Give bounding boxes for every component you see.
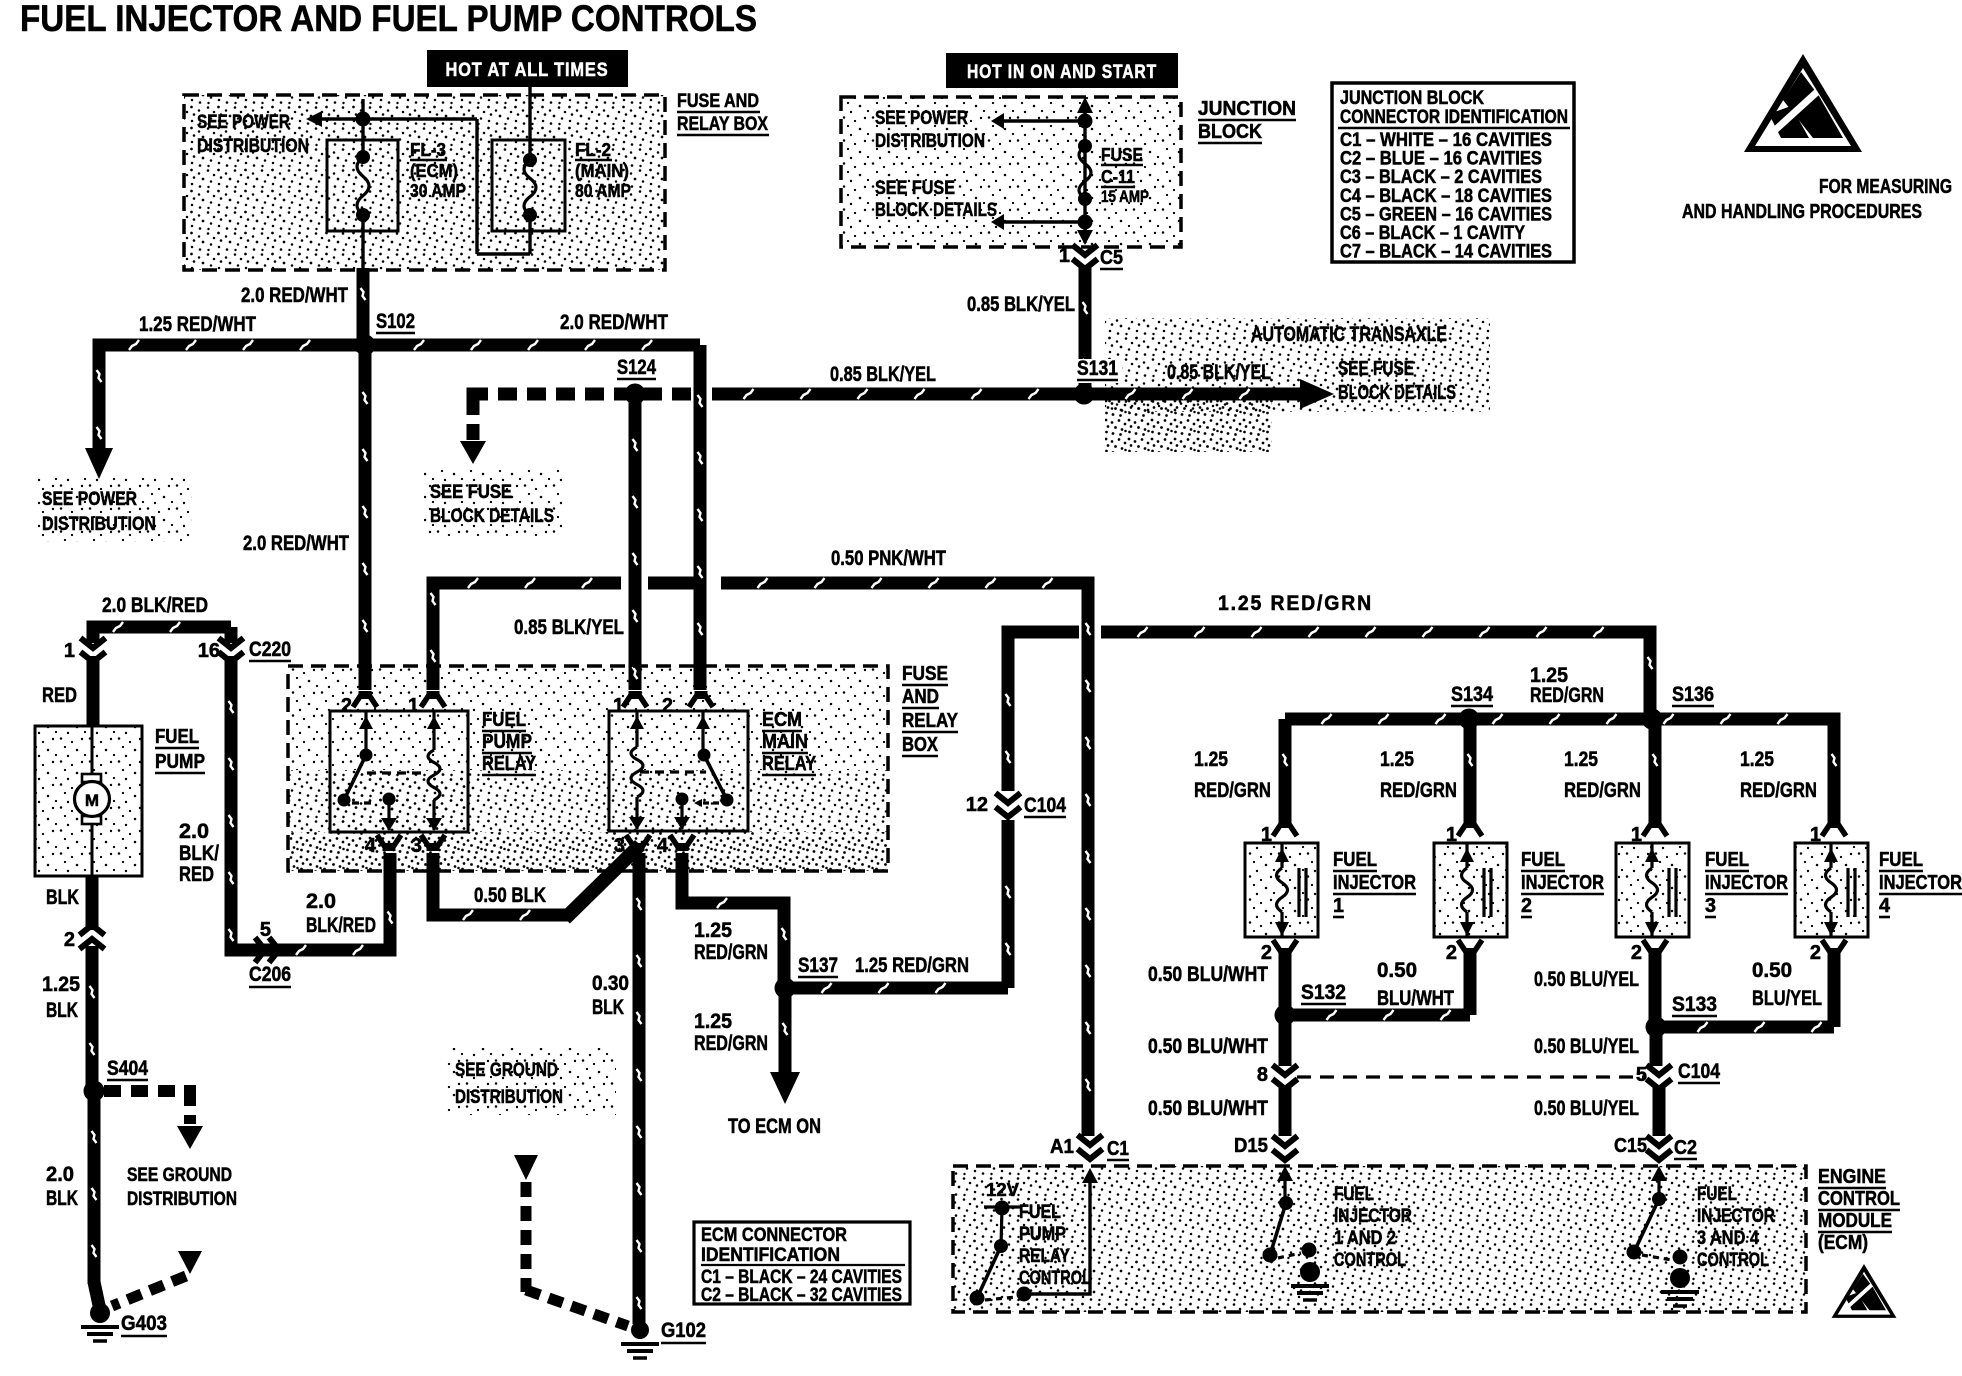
svg-text:PUMP: PUMP — [1019, 1224, 1066, 1245]
svg-text:PUMP: PUMP — [155, 751, 205, 773]
svg-text:RED/GRN: RED/GRN — [1564, 779, 1641, 802]
svg-text:C2 – BLACK – 32 CAVITIES: C2 – BLACK – 32 CAVITIES — [701, 1285, 902, 1306]
svg-text:RED/GRN: RED/GRN — [1530, 684, 1604, 707]
svg-text:MODULE: MODULE — [1818, 1210, 1892, 1232]
svg-text:M: M — [85, 791, 99, 810]
svg-text:2: 2 — [1446, 942, 1457, 964]
svg-text:RELAY: RELAY — [482, 753, 537, 775]
svg-text:HOT IN ON AND START: HOT IN ON AND START — [967, 62, 1157, 83]
svg-text:1.25: 1.25 — [1564, 748, 1598, 771]
svg-text:C-11: C-11 — [1101, 167, 1135, 187]
svg-text:0.85 BLK/YEL: 0.85 BLK/YEL — [514, 616, 624, 639]
svg-text:SEE FUSE: SEE FUSE — [430, 482, 512, 503]
svg-text:BLOCK DETAILS: BLOCK DETAILS — [430, 506, 554, 527]
svg-text:3: 3 — [1705, 895, 1716, 917]
svg-text:RED/GRN: RED/GRN — [1194, 779, 1271, 802]
svg-text:(ECM): (ECM) — [1818, 1232, 1868, 1254]
svg-text:1: 1 — [1631, 824, 1642, 846]
svg-text:FOR MEASURING: FOR MEASURING — [1819, 176, 1952, 198]
svg-text:CONTROL: CONTROL — [1019, 1268, 1091, 1289]
svg-text:C1: C1 — [1107, 1138, 1129, 1160]
svg-text:DISTRIBUTION: DISTRIBUTION — [455, 1087, 563, 1108]
svg-text:AUTOMATIC TRANSAXLE: AUTOMATIC TRANSAXLE — [1251, 323, 1447, 346]
svg-text:1: 1 — [64, 640, 75, 662]
svg-text:0.50: 0.50 — [1752, 959, 1792, 982]
svg-text:2: 2 — [1261, 942, 1272, 964]
svg-text:RED/GRN: RED/GRN — [694, 941, 768, 964]
svg-text:12: 12 — [966, 794, 988, 816]
svg-text:ECM CONNECTOR: ECM CONNECTOR — [701, 1225, 847, 1246]
svg-text:2.0: 2.0 — [46, 1163, 74, 1186]
svg-text:C5: C5 — [1100, 247, 1123, 269]
svg-text:BLK/: BLK/ — [179, 842, 219, 865]
svg-text:SEE POWER: SEE POWER — [875, 108, 968, 129]
svg-text:RELAY: RELAY — [762, 753, 817, 775]
svg-text:2.0 RED/WHT: 2.0 RED/WHT — [560, 311, 668, 334]
svg-text:AND HANDLING PROCEDURES: AND HANDLING PROCEDURES — [1682, 201, 1922, 223]
svg-text:0.50 BLU/YEL: 0.50 BLU/YEL — [1534, 968, 1639, 991]
svg-text:INJECTOR: INJECTOR — [1334, 1206, 1412, 1227]
svg-text:FUEL: FUEL — [1334, 1184, 1374, 1205]
svg-text:FUSE: FUSE — [902, 663, 948, 685]
svg-text:0.50 BLU/WHT: 0.50 BLU/WHT — [1148, 963, 1268, 986]
svg-text:12V: 12V — [986, 1180, 1019, 1200]
svg-text:0.50 BLK: 0.50 BLK — [474, 884, 546, 907]
svg-text:SEE FUSE: SEE FUSE — [1338, 358, 1414, 380]
svg-text:INJECTOR: INJECTOR — [1697, 1206, 1775, 1227]
svg-text:FUEL INJECTOR AND FUEL PUMP CO: FUEL INJECTOR AND FUEL PUMP CONTROLS — [20, 0, 757, 39]
svg-text:C15: C15 — [1614, 1135, 1647, 1157]
svg-text:2: 2 — [1521, 895, 1532, 917]
svg-text:CONTROL: CONTROL — [1697, 1250, 1769, 1271]
svg-text:0.50: 0.50 — [1377, 959, 1417, 982]
svg-text:1 AND 2: 1 AND 2 — [1334, 1228, 1396, 1249]
svg-text:S404: S404 — [107, 1057, 148, 1080]
svg-text:C206: C206 — [249, 963, 291, 986]
svg-text:0.50 BLU/WHT: 0.50 BLU/WHT — [1148, 1035, 1268, 1058]
svg-text:DISTRIBUTION: DISTRIBUTION — [197, 136, 309, 157]
svg-text:(ECM): (ECM) — [410, 161, 458, 181]
svg-text:C220: C220 — [249, 638, 291, 661]
svg-text:D15: D15 — [1234, 1135, 1268, 1157]
svg-text:0.50 BLU/WHT: 0.50 BLU/WHT — [1148, 1097, 1268, 1120]
svg-text:JUNCTION: JUNCTION — [1198, 98, 1296, 120]
svg-text:C104: C104 — [1678, 1060, 1720, 1083]
svg-text:2: 2 — [1810, 942, 1821, 964]
svg-text:2: 2 — [662, 695, 673, 717]
svg-text:FUEL: FUEL — [1333, 849, 1377, 871]
svg-text:2.0 RED/WHT: 2.0 RED/WHT — [243, 532, 349, 555]
svg-text:1.25: 1.25 — [694, 919, 732, 942]
svg-text:0.85 BLK/YEL: 0.85 BLK/YEL — [1167, 361, 1271, 384]
svg-text:C7 – BLACK – 14 CAVITIES: C7 – BLACK – 14 CAVITIES — [1340, 242, 1552, 263]
svg-text:RELAY: RELAY — [1019, 1246, 1070, 1267]
svg-text:2.0 BLK/RED: 2.0 BLK/RED — [102, 594, 208, 617]
svg-text:S137: S137 — [798, 954, 838, 977]
svg-text:SEE GROUND: SEE GROUND — [455, 1060, 558, 1081]
svg-text:2.0: 2.0 — [179, 820, 209, 843]
svg-text:DISTRIBUTION: DISTRIBUTION — [42, 514, 156, 535]
svg-text:BLK: BLK — [46, 999, 78, 1022]
svg-text:4: 4 — [657, 835, 669, 857]
svg-text:2: 2 — [1631, 942, 1642, 964]
svg-text:S132: S132 — [1301, 981, 1346, 1004]
svg-text:FL-2: FL-2 — [575, 140, 611, 160]
svg-text:RELAY: RELAY — [902, 710, 959, 732]
svg-text:FUEL: FUEL — [155, 726, 199, 748]
svg-text:INJECTOR: INJECTOR — [1521, 872, 1604, 894]
svg-text:INJECTOR: INJECTOR — [1879, 872, 1962, 894]
svg-text:FL-3: FL-3 — [410, 140, 446, 160]
svg-text:S131: S131 — [1077, 357, 1118, 380]
svg-text:S133: S133 — [1672, 993, 1717, 1016]
svg-text:RED/GRN: RED/GRN — [1380, 779, 1457, 802]
svg-text:0.50 PNK/WHT: 0.50 PNK/WHT — [831, 547, 946, 570]
svg-text:PUMP: PUMP — [482, 731, 532, 753]
svg-text:RED: RED — [179, 863, 214, 886]
svg-text:RED/GRN: RED/GRN — [694, 1032, 768, 1055]
svg-text:AND: AND — [902, 686, 939, 708]
svg-text:INJECTOR: INJECTOR — [1333, 872, 1416, 894]
svg-text:S124: S124 — [617, 356, 656, 379]
svg-text:FUEL: FUEL — [1019, 1202, 1061, 1223]
svg-text:CONTROL: CONTROL — [1818, 1188, 1900, 1210]
svg-text:DISTRIBUTION: DISTRIBUTION — [875, 131, 985, 152]
svg-text:3: 3 — [614, 835, 625, 857]
svg-text:80 AMP: 80 AMP — [575, 181, 631, 201]
svg-text:BLK: BLK — [592, 996, 624, 1019]
svg-text:1: 1 — [1810, 824, 1821, 846]
svg-text:BLU/YEL: BLU/YEL — [1752, 987, 1822, 1010]
svg-text:TO ECM ON: TO ECM ON — [728, 1115, 821, 1138]
svg-text:1.25 RED/GRN: 1.25 RED/GRN — [855, 954, 969, 977]
svg-text:C2: C2 — [1674, 1137, 1697, 1159]
svg-text:1: 1 — [408, 695, 419, 717]
svg-text:G403: G403 — [121, 1312, 167, 1335]
svg-text:FUEL: FUEL — [1705, 849, 1749, 871]
svg-text:0.85 BLK/YEL: 0.85 BLK/YEL — [830, 363, 936, 386]
svg-text:0.85 BLK/YEL: 0.85 BLK/YEL — [967, 293, 1075, 316]
svg-text:2: 2 — [341, 695, 352, 717]
svg-text:S102: S102 — [376, 310, 415, 333]
svg-text:C104: C104 — [1024, 794, 1066, 817]
svg-text:0.30: 0.30 — [592, 972, 629, 995]
svg-text:BLK/RED: BLK/RED — [306, 914, 376, 937]
svg-text:RED: RED — [42, 684, 77, 707]
svg-text:JUNCTION BLOCK: JUNCTION BLOCK — [1340, 88, 1484, 109]
svg-text:1.25: 1.25 — [694, 1010, 732, 1033]
svg-text:SEE FUSE: SEE FUSE — [875, 178, 955, 199]
svg-text:DISTRIBUTION: DISTRIBUTION — [127, 1189, 237, 1210]
svg-text:1.25: 1.25 — [1194, 748, 1228, 771]
svg-text:3 AND 4: 3 AND 4 — [1697, 1228, 1759, 1249]
svg-text:HOT AT ALL TIMES: HOT AT ALL TIMES — [446, 60, 609, 81]
svg-text:0.50 BLU/YEL: 0.50 BLU/YEL — [1534, 1097, 1639, 1120]
svg-text:FUSE AND: FUSE AND — [677, 91, 759, 112]
svg-text:BLK: BLK — [46, 1187, 78, 1210]
svg-text:ENGINE: ENGINE — [1818, 1166, 1886, 1188]
svg-text:(MAIN): (MAIN) — [575, 161, 629, 181]
svg-text:1: 1 — [1059, 245, 1070, 267]
svg-text:S136: S136 — [1672, 683, 1714, 706]
svg-text:CONNECTOR IDENTIFICATION: CONNECTOR IDENTIFICATION — [1340, 107, 1568, 128]
svg-text:BLOCK DETAILS: BLOCK DETAILS — [875, 200, 997, 221]
svg-text:G102: G102 — [661, 1319, 706, 1342]
svg-text:FUSE: FUSE — [1101, 145, 1143, 165]
svg-text:FUEL: FUEL — [1697, 1184, 1737, 1205]
svg-text:CONTROL: CONTROL — [1334, 1250, 1406, 1271]
svg-text:SEE POWER: SEE POWER — [197, 112, 290, 133]
svg-text:1.25: 1.25 — [1740, 748, 1774, 771]
svg-text:FUEL: FUEL — [482, 709, 526, 731]
svg-text:4: 4 — [365, 835, 377, 857]
svg-text:2: 2 — [64, 929, 75, 951]
svg-text:BLU/WHT: BLU/WHT — [1377, 987, 1454, 1010]
svg-text:1: 1 — [1261, 824, 1272, 846]
svg-text:15 AMP: 15 AMP — [1101, 187, 1149, 206]
svg-text:16: 16 — [198, 640, 220, 662]
svg-text:BLK: BLK — [46, 886, 79, 909]
svg-text:RELAY BOX: RELAY BOX — [677, 114, 768, 135]
svg-text:0.50 BLU/YEL: 0.50 BLU/YEL — [1534, 1035, 1639, 1058]
svg-text:INJECTOR: INJECTOR — [1705, 872, 1788, 894]
svg-text:MAIN: MAIN — [762, 731, 808, 753]
svg-text:A1: A1 — [1050, 1136, 1074, 1158]
svg-text:2.0: 2.0 — [306, 890, 336, 913]
svg-text:S134: S134 — [1451, 683, 1493, 706]
svg-text:1.25: 1.25 — [42, 973, 80, 996]
svg-text:1.25 RED/GRN: 1.25 RED/GRN — [1218, 592, 1373, 615]
svg-text:1: 1 — [1333, 895, 1344, 917]
svg-text:FUEL: FUEL — [1879, 849, 1923, 871]
svg-text:2.0 RED/WHT: 2.0 RED/WHT — [241, 284, 348, 307]
svg-text:8: 8 — [1257, 1064, 1268, 1086]
svg-text:1.25 RED/WHT: 1.25 RED/WHT — [139, 313, 256, 336]
svg-text:ECM: ECM — [762, 709, 802, 731]
svg-text:IDENTIFICATION: IDENTIFICATION — [701, 1245, 840, 1266]
svg-text:RED/GRN: RED/GRN — [1740, 779, 1817, 802]
svg-text:BLOCK DETAILS: BLOCK DETAILS — [1338, 382, 1456, 404]
svg-text:FUEL: FUEL — [1521, 849, 1565, 871]
svg-text:SEE POWER: SEE POWER — [42, 489, 137, 510]
svg-text:30 AMP: 30 AMP — [410, 181, 466, 201]
svg-text:BOX: BOX — [902, 734, 939, 756]
svg-text:1.25: 1.25 — [1380, 748, 1414, 771]
svg-text:BLOCK: BLOCK — [1198, 121, 1262, 143]
svg-text:4: 4 — [1879, 895, 1891, 917]
svg-text:SEE GROUND: SEE GROUND — [127, 1165, 232, 1186]
svg-text:1: 1 — [1446, 824, 1457, 846]
